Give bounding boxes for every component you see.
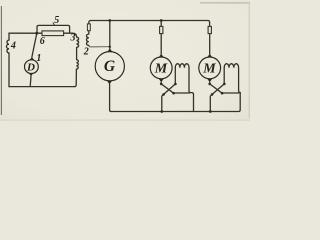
- wire: exciter loop left/bottom side: [9, 33, 75, 86]
- brush mark M1 bottom: [159, 79, 164, 82]
- series field winding of motor 1: [175, 64, 189, 68]
- crossover terminal M1 top-right: [174, 83, 177, 86]
- wire: D armature to top wire: [32, 33, 37, 57]
- svg-text:D: D: [26, 61, 35, 73]
- svg-text:2: 2: [83, 46, 89, 57]
- inductor 3: [77, 37, 79, 48]
- crossover terminal M1 top-left: [160, 83, 163, 86]
- svg-text:1: 1: [36, 53, 41, 64]
- wire: motor 1 feeder: [160, 21, 162, 55]
- traction motor M2: [199, 57, 221, 79]
- crossover diagonal M2 field-to-left: [210, 84, 224, 112]
- brush mark M1 top: [159, 54, 164, 57]
- traction motor M1: [150, 57, 172, 79]
- inductor 4 (exciter field winding): [6, 40, 9, 53]
- paper background: [0, 0, 250, 121]
- top bus bar: [91, 21, 210, 27]
- wire: coil 3 line down to loop bottom: [75, 48, 77, 87]
- wire: motor 2 armature bottom to crossover: [209, 82, 211, 84]
- wire: resistor to coil 3: [64, 33, 77, 37]
- wire: generator negative lead to bottom bus: [110, 84, 112, 111]
- wire: generator positive lead: [109, 21, 111, 49]
- crossover terminal M2 top-right: [223, 83, 226, 86]
- svg-text:M: M: [154, 62, 168, 77]
- crossover diagonal M1 armature-to-right: [161, 84, 173, 93]
- wire: field coil 1 left terminal: [174, 68, 176, 84]
- crossover terminal M2 top-left: [208, 83, 211, 86]
- wire: field coil 1 right terminal down to bus: [189, 68, 194, 112]
- shunt switch wire 5: [37, 25, 70, 33]
- scan edge right: [248, 4, 250, 118]
- junction node on exciter top wire: [35, 32, 38, 35]
- brush mark D top: [30, 57, 35, 61]
- svg-text:6: 6: [40, 36, 45, 47]
- brush mark M2 top: [207, 54, 212, 57]
- crossover diagonal M2 armature-to-right: [210, 84, 222, 93]
- wire: motor 1 armature bottom to crossover: [160, 82, 162, 84]
- wire: coil 2 bottom to generator lead: [89, 45, 110, 47]
- wire: field coil 2 left terminal: [223, 68, 225, 84]
- svg-text:4: 4: [10, 41, 16, 52]
- crossover diagonal M1 field-to-left: [162, 84, 176, 112]
- crossover terminal M2 bottom-right: [221, 92, 224, 95]
- inductor 2 (generator field): [86, 34, 88, 45]
- svg-text:M: M: [202, 62, 216, 77]
- series field winding of motor 2: [224, 64, 240, 93]
- brush mark G bottom: [107, 81, 112, 85]
- bottom bus bar: [111, 93, 240, 112]
- wire: coil 2 leads: [89, 21, 91, 35]
- wire: motor 2 feeder: [209, 34, 211, 54]
- inductor 3 lower section: [76, 60, 78, 70]
- crossover terminal M1 bottom-left: [162, 93, 165, 96]
- svg-text:5: 5: [54, 15, 59, 26]
- junction node bus / M2 return: [209, 110, 212, 113]
- fuse of motor 1 branch: [160, 26, 163, 33]
- brush mark G top: [107, 48, 112, 52]
- svg-text:3: 3: [70, 33, 76, 44]
- wire: main top wire of exciter circuit: [37, 32, 42, 34]
- crossover terminal M2 bottom-left: [211, 93, 214, 96]
- junction node top bus / generator: [108, 19, 111, 22]
- wire: M1 crossover output to bus riser: [174, 92, 190, 94]
- scan edge left: [0, 6, 2, 115]
- junction node top bus / motor 1: [160, 19, 163, 22]
- leader line of label 5: [53, 23, 55, 26]
- junction node bus / M1 return: [160, 110, 163, 113]
- crossover terminal M1 bottom-right: [172, 92, 175, 95]
- generator G: [95, 52, 124, 81]
- svg-text:G: G: [104, 58, 116, 75]
- exciter machine D: [25, 60, 39, 74]
- scan shading bottom: [0, 119, 250, 121]
- fuse of generator field branch: [87, 24, 90, 31]
- brush mark M2 bottom: [207, 79, 212, 82]
- junction node coil 2 / generator lead: [109, 46, 111, 48]
- resistor 6: [42, 31, 64, 36]
- fuse of motor 2 branch: [208, 26, 211, 33]
- scan streak top right: [200, 2, 250, 4]
- brush mark D bottom: [29, 73, 34, 77]
- wire: M2 crossover output to bus riser: [222, 92, 239, 94]
